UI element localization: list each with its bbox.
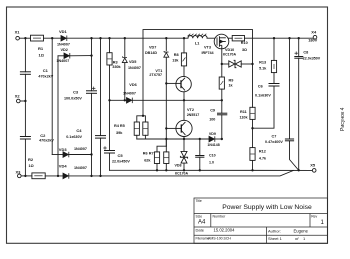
svg-text:5.1k: 5.1k (259, 67, 267, 71)
svg-text:VD8: VD8 (175, 163, 182, 167)
svg-text:Author:: Author: (268, 228, 281, 233)
svg-text:VD10: VD10 (225, 48, 234, 52)
svg-text:L1: L1 (195, 40, 200, 45)
svg-text:A4: A4 (198, 220, 206, 226)
svg-text:1N4148: 1N4148 (207, 143, 219, 147)
svg-text:39k: 39k (116, 131, 123, 135)
svg-text:C3: C3 (73, 89, 79, 94)
svg-text:62k: 62k (144, 159, 151, 163)
svg-text:0.1x630V: 0.1x630V (66, 135, 82, 139)
svg-text:C2: C2 (40, 133, 46, 138)
svg-text:1N4007: 1N4007 (57, 43, 70, 47)
svg-text:X2: X2 (15, 94, 21, 99)
svg-text:1Ω: 1Ω (29, 164, 34, 168)
svg-text:100.0x50V: 100.0x50V (64, 97, 82, 101)
svg-text:470x2kV: 470x2kV (39, 138, 54, 142)
svg-text:1Ω: 1Ω (39, 53, 45, 58)
svg-text:R2: R2 (28, 157, 34, 162)
svg-text:X3: X3 (16, 170, 22, 175)
svg-text:VD5: VD5 (129, 60, 136, 64)
svg-text:470x2kV: 470x2kV (38, 74, 53, 78)
svg-text:C7: C7 (272, 134, 277, 138)
svg-text:DB14D: DB14D (145, 51, 157, 55)
svg-text:R4 R5: R4 R5 (114, 124, 125, 128)
svg-text:100: 100 (209, 118, 215, 122)
svg-text:C5: C5 (118, 153, 124, 158)
svg-text:Рисунок 4: Рисунок 4 (340, 107, 346, 131)
svg-text:22.0x450V: 22.0x450V (112, 159, 130, 163)
svg-text:0.1x630V: 0.1x630V (255, 94, 271, 98)
svg-text:0.47x400V: 0.47x400V (265, 140, 283, 144)
svg-text:VD4: VD4 (59, 163, 68, 168)
svg-text:VD3: VD3 (59, 147, 68, 152)
svg-text:VD9: VD9 (209, 132, 216, 136)
svg-text:X5: X5 (310, 163, 316, 168)
svg-text:Size: Size (196, 215, 203, 219)
svg-text:КС170А: КС170А (223, 53, 236, 57)
svg-text:Title: Title (196, 199, 202, 203)
svg-text:R12: R12 (259, 150, 266, 154)
svg-text:R10: R10 (241, 41, 248, 45)
svg-text:1.0: 1.0 (209, 160, 214, 164)
svg-text:VT3: VT3 (204, 46, 211, 50)
svg-text:VD6: VD6 (129, 83, 136, 87)
svg-text:1N4007: 1N4007 (128, 66, 141, 70)
svg-text:VD7: VD7 (149, 46, 156, 50)
svg-text:C6: C6 (258, 85, 263, 89)
svg-text:Rev: Rev (311, 215, 317, 219)
svg-text:C8: C8 (303, 51, 308, 55)
svg-text:R8: R8 (174, 53, 179, 57)
svg-text:15.02.2004: 15.02.2004 (214, 228, 236, 233)
svg-text:Eugene: Eugene (294, 228, 309, 233)
svg-text:Number: Number (213, 215, 227, 219)
svg-text:Date: Date (196, 228, 205, 233)
svg-text:330k: 330k (112, 65, 121, 69)
svg-text:X4: X4 (311, 29, 317, 34)
svg-text:R1: R1 (38, 46, 44, 51)
svg-text:R9: R9 (229, 79, 234, 83)
svg-text:Sheet 1: Sheet 1 (268, 236, 283, 241)
svg-text:VD1: VD1 (59, 29, 68, 34)
svg-text:1N4007: 1N4007 (74, 147, 87, 151)
svg-text:110k: 110k (240, 116, 249, 120)
svg-text:1N4007: 1N4007 (74, 166, 87, 170)
svg-text:C1: C1 (43, 68, 49, 73)
svg-text:C4: C4 (76, 128, 82, 133)
svg-text:22.0x350V: 22.0x350V (303, 57, 321, 61)
svg-text:VT2: VT2 (187, 108, 194, 112)
svg-text:X1: X1 (15, 30, 21, 35)
svg-text:C9: C9 (210, 109, 215, 113)
svg-text:R11: R11 (240, 110, 247, 114)
svg-text:R13: R13 (259, 61, 266, 65)
svg-text:3Ω: 3Ω (242, 48, 247, 52)
svg-text:КС170А: КС170А (175, 171, 188, 175)
svg-text:IRF744: IRF744 (202, 51, 215, 55)
svg-text:180V: 180V (308, 38, 317, 43)
svg-text:1N4007: 1N4007 (123, 91, 136, 95)
svg-text:R6 R7: R6 R7 (143, 152, 154, 156)
svg-text:1N4007: 1N4007 (56, 59, 69, 63)
svg-text:13k: 13k (172, 59, 179, 63)
svg-text:4.7k: 4.7k (259, 156, 267, 160)
svg-text:2N5517: 2N5517 (187, 113, 200, 117)
svg-text:C10: C10 (209, 153, 216, 157)
svg-text:Power Supply with Low Noise: Power Supply with Low Noise (222, 204, 312, 211)
svg-text:VD2: VD2 (61, 48, 68, 52)
svg-text:AMS-100.SCH: AMS-100.SCH (208, 237, 231, 241)
svg-text:2TX757: 2TX757 (149, 73, 162, 77)
